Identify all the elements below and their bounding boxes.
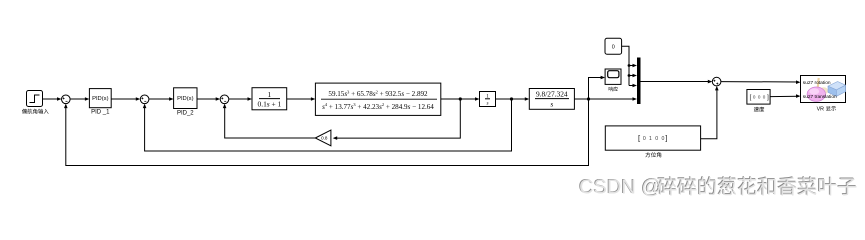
constant 0 block: [605, 38, 622, 54]
svg-text:PID_2: PID_2: [177, 110, 194, 116]
svg-text:CSDN @: CSDN @: [579, 177, 662, 199]
speed label: [754, 107, 764, 112]
VR icon stick: [818, 78, 819, 91]
wire sum4 to VR rotation: [721, 81, 799, 83]
watermark: [578, 176, 856, 199]
PID controller PID_1: [89, 89, 111, 108]
wire speed to VR translation: [770, 95, 799, 97]
svg-text:VR: VR: [817, 106, 825, 112]
wire sum2 to PID_2: [149, 98, 172, 100]
wire PID_2 to sum3: [197, 98, 219, 100]
svg-text:]: ]: [665, 133, 667, 142]
wire PID_1 to sum2: [111, 98, 139, 100]
wire J3 to mux input 4: [589, 98, 636, 100]
wire branch to mux input2: [629, 75, 635, 77]
mux block: [637, 58, 641, 105]
feedback wire triangle to sum3 bottom: [225, 105, 316, 138]
wire plant to junction J1: [441, 98, 461, 100]
svg-text:]: ]: [767, 94, 769, 101]
svg-text:59.15s3 + 65.78s2 + 932.5s − 2: 59.15s3 + 65.78s2 + 932.5s − 2.892: [328, 90, 428, 99]
wire J3 up to scope: [589, 78, 604, 100]
scope block: [605, 69, 621, 84]
svg-text:0: 0: [753, 95, 756, 100]
wire gain integrator to junction J3: [574, 98, 588, 100]
sum S4 signs: [713, 80, 718, 85]
sum S1 signs: [63, 97, 68, 101]
svg-text:PID _1: PID _1: [91, 109, 110, 115]
VR icon pink sphere: [807, 87, 825, 101]
svg-text:9.8/27.324: 9.8/27.324: [536, 90, 568, 99]
scope label: [609, 87, 618, 92]
azimuth text [0 1 0 0]: [638, 133, 667, 142]
svg-text:0: 0: [763, 95, 766, 100]
VR icon cream blob: [820, 87, 828, 94]
wire mux to sum4: [641, 81, 711, 83]
feedback wire J3 to sum1 bottom: [66, 99, 589, 166]
wire J2 to gain integrator: [512, 98, 528, 100]
step label: [22, 109, 49, 114]
sum S3: [220, 95, 229, 104]
step icon: [30, 95, 40, 103]
plant transfer function block: [315, 83, 440, 115]
svg-text:0.8: 0.8: [321, 136, 328, 141]
sum S2 signs: [141, 97, 146, 101]
wire branch to mux input1: [629, 65, 635, 67]
svg-text:PID(s): PID(s): [177, 96, 193, 102]
PID controller PID_2: [174, 88, 197, 109]
svg-text:s: s: [486, 101, 488, 107]
wire constant to mux branches: [622, 46, 629, 85]
feedback wire J1 to gain triangle: [334, 99, 460, 138]
svg-text:[: [: [749, 94, 751, 101]
wire azimuth to sum4 bottom: [701, 87, 717, 138]
svg-text:1: 1: [268, 90, 272, 99]
step source block: [27, 91, 43, 107]
junction J3: [587, 97, 590, 100]
wire lag to plant TF: [287, 98, 314, 100]
svg-text:s4 + 13.77s3 + 42.23s2 + 284.9: s4 + 13.77s3 + 42.23s2 + 284.9s − 12.64: [322, 102, 434, 111]
svg-text:s: s: [550, 99, 553, 108]
wire sum3 to lag block: [229, 98, 251, 100]
svg-text:0: 0: [758, 95, 761, 100]
VR sink block: [801, 76, 846, 103]
svg-text:su27 translation: su27 translation: [803, 94, 837, 100]
svg-text:0: 0: [655, 136, 658, 142]
azimuth label: [645, 152, 661, 157]
svg-text:1: 1: [649, 136, 652, 142]
transfer function 1/(0.1s+1): [252, 88, 287, 110]
wire J1 to integrator: [460, 98, 478, 100]
wire integrator to junction J2: [496, 98, 512, 100]
svg-text:1: 1: [486, 94, 489, 100]
svg-text:0: 0: [661, 136, 664, 142]
sum S4: [712, 77, 721, 86]
wire step to sum1: [43, 98, 61, 100]
sum S3 signs: [221, 97, 226, 101]
VR icon blue cube: [828, 82, 846, 97]
scope screen icon: [608, 71, 619, 78]
svg-text:PID(s): PID(s): [92, 96, 108, 102]
speed text [0 0 0]: [749, 94, 769, 101]
speed constant block [0 0 0]: [747, 90, 770, 105]
branch dot B2: [628, 74, 631, 77]
azimuth constant block [0 1 0 0]: [605, 126, 700, 150]
gain triangle 0.8: [315, 130, 331, 146]
branch dot B1: [628, 64, 631, 67]
gain integrator 9.8/27.324/s: [529, 89, 574, 110]
svg-text:0: 0: [612, 44, 615, 50]
sum S2: [140, 95, 149, 104]
sum S1: [62, 95, 71, 104]
junction J1: [459, 97, 462, 100]
svg-text:su27 rotation: su27 rotation: [803, 80, 831, 86]
integrator 1/s: [480, 92, 496, 107]
svg-text:0: 0: [643, 136, 646, 142]
feedback wire J2 to sum2 bottom: [145, 99, 512, 151]
wire sum1 to PID_1: [70, 98, 88, 100]
wire branch to mux input3: [629, 85, 635, 87]
junction J2: [510, 97, 513, 100]
svg-text:0.1s + 1: 0.1s + 1: [258, 100, 282, 109]
